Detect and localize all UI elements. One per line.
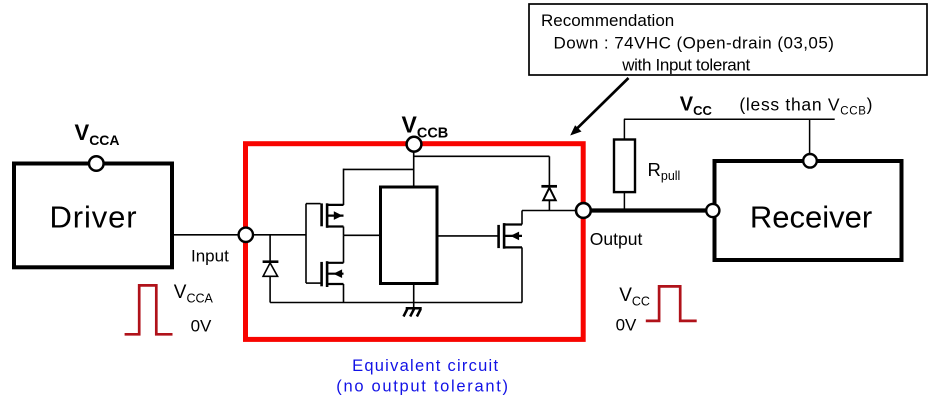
svg-text:Rpull: Rpull [648,159,681,183]
PMOS Q1 (inverter top) [322,203,344,228]
svg-text:Receiver: Receiver [750,200,872,235]
svg-text:Down : 74VHC (Open-drain (03,0: Down : 74VHC (Open-drain (03,05) [554,33,835,52]
internal logic block [381,187,438,284]
wire NMOS source to ground rail [343,284,345,303]
recommendation note box [529,4,927,75]
wire Q3 source to ground rail [521,247,523,302]
red equivalent circuit box [246,144,584,340]
VCCA waveform pulse [125,285,173,334]
svg-text:Recommendation: Recommendation [541,11,674,30]
VCC waveform pulse [646,286,697,321]
wire driver output to Input node [172,234,240,236]
tolerant diode D2 (output to VCCB) [541,186,557,210]
svg-text:Driver: Driver [49,200,137,235]
VCCB terminal node [407,137,422,152]
wire VCCB down to block [413,152,415,188]
Input node [239,228,253,242]
svg-text:VCCA: VCCA [174,282,214,306]
svg-text:VCC: VCC [680,93,713,118]
VCC supply wire [624,119,835,154]
wire block bottom to ground rail [413,284,415,303]
receiver input node [706,204,719,217]
shared gate bracket of inverter [306,204,321,284]
svg-text:(no output tolerant): (no output tolerant) [336,378,509,396]
svg-text:VCCA: VCCA [75,120,120,148]
receiver VCC node [803,154,817,168]
VCCA terminal node on driver [89,156,104,171]
svg-text:with Input tolerant: with Input tolerant [621,55,750,74]
svg-text:0V: 0V [616,316,637,335]
Output node [576,203,591,218]
wire Q3 drain to output wire [521,211,523,225]
svg-text:Output: Output [590,229,643,249]
receiver block [715,161,902,260]
output wire inside box [522,210,577,212]
wire PMOS drain to output node of inverter [343,227,345,236]
svg-text:VCC: VCC [619,285,650,309]
wire inverter output to internal block [344,234,380,236]
thick output wire to receiver [591,208,712,212]
arrow from note to equivalent-circuit box [570,78,628,136]
resistor Rpull [614,140,635,211]
svg-text:Equivalent circuit: Equivalent circuit [352,357,499,375]
NMOS Q2 (inverter bottom) [322,261,344,287]
VCCA label [75,120,120,148]
driver block [14,164,172,268]
wire block to output NMOS gate [437,235,499,237]
output NMOS Q3 (open-drain) [499,223,522,249]
ESD diode D1 (input to ground) [263,235,279,303]
wire NMOS drain up to inverter output [343,235,345,262]
wire VCCB branch right to tolerant diode [414,156,550,185]
svg-text:(less than VCCB): (less than VCCB) [739,94,873,117]
svg-text:0V: 0V [191,317,212,336]
wire VCCB branch left to PMOS source [344,169,414,205]
ground symbol [404,303,422,317]
svg-text:Input: Input [191,247,229,266]
svg-text:VCCB: VCCB [402,111,449,141]
equivalent circuit caption [336,357,509,396]
ground rail [270,302,522,304]
wire input node to gate bracket [253,234,306,236]
